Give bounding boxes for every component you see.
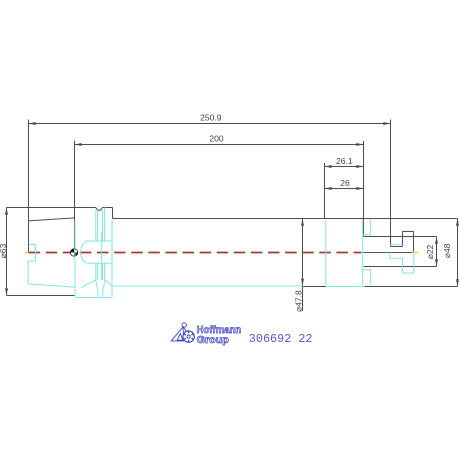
node arrow dia47.8 up: [301, 219, 304, 226]
svg-text:⌀63: ⌀63: [0, 244, 8, 259]
wire dim line 26.1: [325, 166, 364, 168]
wire bottom edge right + dia48 extension: [363, 286, 457, 288]
svg-text:250.9: 250.9: [200, 113, 222, 123]
wire dia63 top extension + flange top: [7, 207, 96, 209]
node arrow dia63 up: [5, 208, 8, 215]
wire flange top right: [103, 207, 113, 209]
wire dia63 bottom extension: [7, 295, 75, 297]
wire cyan small horizontal y=244.7: [390, 244, 403, 246]
node arrow dia63 down: [5, 288, 8, 295]
wire dia48 dim vertical: [457, 219, 459, 287]
wire extension x=391 right face: [390, 120, 392, 247]
node arrow dia48 up: [456, 219, 459, 226]
wire step vertical x=402.9: [402, 232, 404, 247]
wire dia63 dim vertical: [6, 208, 8, 296]
wire taper top slant: [29, 218, 75, 221]
node arrow dia22 down: [435, 259, 438, 266]
wire cyan body bottom edge right part: [326, 286, 365, 288]
wire dim line 250.9: [29, 123, 391, 125]
svg-text:⌀48: ⌀48: [442, 243, 452, 258]
svg-text:306692 22: 306692 22: [249, 332, 313, 346]
wire spigot top edge + dia22 extension: [364, 236, 437, 238]
wire tip right face x=413.9: [413, 232, 415, 253]
wire cyan groove center vertical: [101, 232, 103, 281]
wire cyan flange left lower edge: [74, 220, 76, 298]
node arrow 250.9 right: [383, 122, 390, 125]
wire cyan funnel right: [103, 280, 105, 297]
wire cyan mirror step: [390, 252, 414, 273]
wire cyan step rect bottom: [363, 270, 371, 286]
wire cyan flange right edge: [111, 219, 113, 298]
wire extension x=74.6 flange left edge: [74, 141, 76, 252]
wire cyan body bottom edge: [112, 285, 303, 287]
node gauge point dot: [70, 249, 77, 256]
node arrow 26 right: [356, 187, 363, 190]
wire cyan variant end face x=325.8: [325, 219, 327, 285]
wire extension x=324.8: [324, 163, 326, 219]
wire bottom step segment: [303, 286, 326, 288]
node arrow dia22 up: [435, 237, 438, 244]
wire cyan taper bottom slant: [28, 284, 75, 288]
wire flange right edge: [112, 208, 114, 219]
wire flange V-notch: [96, 208, 103, 211]
wire tip top edge y=231.4: [403, 231, 414, 233]
wire cyan groove verticals lower: [96, 263, 105, 280]
wire cyan step rect top: [363, 219, 371, 235]
wire cyan taper notch: [28, 245, 35, 284]
wire cyan wing right: [105, 280, 112, 286]
wire spigot bottom edge + dia22 extension: [364, 266, 437, 268]
node centerline yellow tick right: [412, 252, 418, 254]
node centerline yellow tick left: [24, 252, 28, 254]
svg-text:⌀47.8: ⌀47.8: [293, 290, 303, 312]
svg-text:Group: Group: [197, 334, 229, 346]
node arrow 250.9 left: [29, 122, 36, 125]
svg-text:26.1: 26.1: [336, 156, 353, 166]
wire dia47.8 leader vertical: [302, 219, 304, 312]
node arrow dia48 down: [456, 279, 459, 286]
wire dia22 dim vertical: [436, 237, 438, 267]
node logo triangle: [171, 327, 184, 341]
wire cyan flange bottom: [75, 297, 112, 299]
node centerline solid segment: [362, 252, 414, 254]
wire body top edge + dia48 extension: [113, 218, 458, 220]
node arrow 200 left: [75, 143, 82, 146]
wire cyan capsule top: [88, 240, 112, 242]
node arrow 26 left: [325, 187, 332, 190]
node arrow dia47.8 down: [301, 279, 304, 286]
wire dim line 200: [75, 144, 364, 146]
node centerline red dashed: [29, 252, 362, 254]
node logo right slant: [183, 327, 187, 333]
svg-text:200: 200: [209, 134, 223, 144]
wire step horizontal y=246.3: [391, 246, 403, 248]
wire extension x=363.4 step edge: [363, 141, 365, 237]
wire cyan right end face x=362.7: [362, 219, 364, 285]
node logo head circle: [182, 323, 186, 327]
wire cyan groove verticals upper: [96, 208, 105, 242]
wire cyan capsule bottom: [88, 262, 112, 264]
svg-text:26: 26: [340, 178, 350, 188]
wire cyan capsule arc: [81, 241, 89, 263]
node arrow 26.1 right: [356, 165, 363, 168]
wire cyan funnel left: [96, 280, 98, 297]
wire dim line 26: [325, 188, 364, 190]
wire cyan wing left: [81, 280, 95, 287]
node logo gear: [183, 331, 194, 342]
node arrow 200 right: [356, 143, 363, 146]
wire extension left x=28.8: [28, 120, 30, 253]
svg-text:⌀22: ⌀22: [425, 244, 435, 259]
node arrow 26.1 left: [325, 165, 332, 168]
